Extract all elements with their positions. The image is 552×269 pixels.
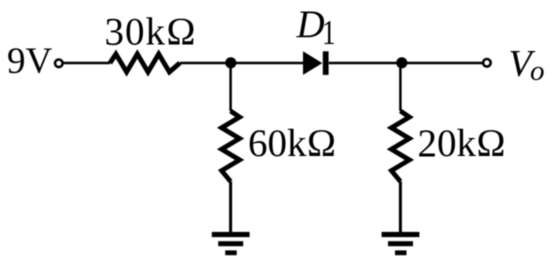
svg-text:D: D (296, 3, 325, 46)
svg-text:30kΩ: 30kΩ (105, 10, 197, 53)
svg-text:1: 1 (322, 13, 336, 52)
svg-text:o: o (530, 55, 545, 87)
svg-text:9V: 9V (7, 41, 53, 82)
svg-text:20kΩ: 20kΩ (418, 122, 506, 165)
svg-text:60kΩ: 60kΩ (248, 122, 336, 165)
